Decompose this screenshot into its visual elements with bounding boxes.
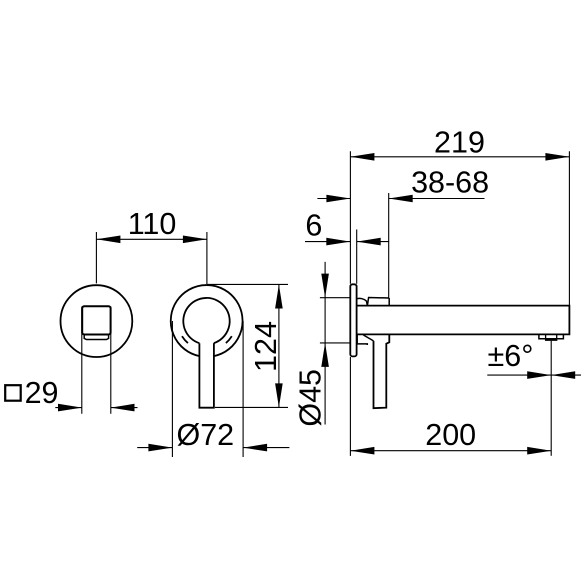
dim 110 ext left [95, 232, 97, 283]
svg-text:Ø72: Ø72 [176, 418, 234, 452]
dim dia72 line [137, 447, 289, 449]
arrow 6 right [357, 238, 381, 246]
dim 110 line [96, 238, 206, 240]
arrow 200 left [350, 447, 374, 455]
svg-text:6: 6 [305, 209, 322, 243]
svg-text:200: 200 [425, 418, 476, 452]
dim 124 line [278, 285, 280, 408]
svg-text:124: 124 [249, 321, 283, 372]
arrow dia45 top [321, 274, 329, 298]
dim sq29 line [55, 407, 137, 409]
left escutcheon circle [61, 285, 133, 357]
aerator lip [84, 336, 108, 340]
arrow 219 left [350, 153, 374, 161]
top cover curve [357, 298, 367, 305]
dim 200 line [350, 450, 551, 452]
arrow sq29 left [58, 404, 82, 412]
dim 200 ext left [349, 357, 351, 456]
arrow 38-68 right [389, 195, 413, 203]
dim 110 ext right [206, 232, 208, 284]
arrow 124 top [275, 285, 283, 309]
svg-text:110: 110 [128, 207, 177, 241]
dim dia72 ext [172, 321, 243, 457]
arrow dia45 bottom [321, 343, 329, 367]
dim 6 line [305, 241, 389, 243]
label square symbol [5, 385, 21, 401]
arrow dia72 right [243, 444, 267, 452]
tick arc right [226, 336, 232, 343]
svg-text:219: 219 [434, 126, 485, 160]
square spout face 29x29 [82, 306, 110, 334]
arrow sq29 right [111, 404, 135, 412]
dim sq29 ext [82, 307, 111, 414]
aerator middle [546, 335, 557, 341]
lever neck diagonal [363, 335, 373, 341]
right escutcheon circle (broken at lever) [171, 285, 243, 356]
arrow 124 bottom [275, 383, 283, 407]
dim 38-68 ext [388, 193, 390, 298]
arrow 200 right [527, 447, 551, 455]
arrow 110 left [96, 236, 120, 244]
dim 219 ext right [568, 151, 570, 305]
aerator tray [539, 335, 564, 339]
arrow 219 right [545, 153, 569, 161]
dim 38-68 line [317, 198, 484, 200]
dim 6 ext [356, 230, 358, 284]
arrow 6 left [326, 238, 350, 246]
dim 219 ext left [349, 151, 351, 283]
svg-text:±6°: ±6° [488, 339, 534, 373]
svg-text:29: 29 [25, 376, 59, 410]
dim 124 ext bottom [215, 406, 288, 408]
dim pm6 ext [550, 341, 552, 456]
dim pm6 line [487, 374, 581, 376]
tick arc left [182, 336, 188, 343]
arrow 38-68 left [326, 195, 350, 203]
dim 124 ext top [207, 283, 288, 285]
top cover collar [367, 298, 389, 306]
wall plate [350, 284, 356, 356]
svg-text:38-68: 38-68 [411, 166, 489, 200]
arrow dia72 left [148, 444, 172, 452]
lever bar front [199, 343, 214, 408]
dim 219 line [350, 156, 569, 158]
arrow 110 right [183, 236, 207, 244]
dim dia45 line [324, 262, 326, 425]
svg-text:Ø45: Ø45 [294, 369, 328, 427]
handle ring (broken at lever) [183, 298, 229, 343]
bottom collar [357, 334, 367, 345]
lever bar side [374, 334, 390, 408]
spout body [357, 306, 570, 335]
arrow pm6 left [527, 371, 551, 379]
dim dia45 ext [320, 298, 350, 343]
arrow pm6 right [551, 371, 575, 379]
